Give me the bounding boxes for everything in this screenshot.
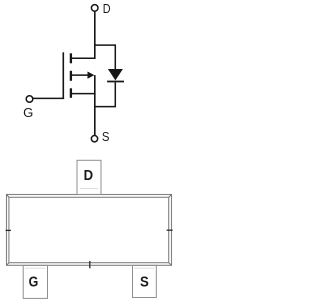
package corner bevel bottom-right (169, 263, 172, 266)
svg-text:D: D (103, 2, 111, 16)
package body outer outline (SOT-23 top view) (7, 195, 172, 266)
diode D1 cathode bar (107, 81, 124, 83)
package left edge tick mark (6, 229, 11, 231)
wire diode bottom branch to source lead (95, 106, 116, 108)
wire body to source vertical (94, 75, 96, 94)
svg-text:S: S (140, 274, 149, 290)
package pad G (gate tab) (23, 265, 47, 298)
terminal D (drain pin circle) (91, 5, 98, 12)
transistor Q1 channel bar drain (70, 53, 72, 63)
svg-text:S: S (102, 130, 110, 144)
transistor Q1 body arrow (P-channel arrowhead) (88, 72, 95, 79)
transistor Q1 channel bar body (70, 71, 72, 81)
package bottom edge tick mark (89, 261, 91, 268)
package pad D (drain tab) (77, 160, 101, 194)
wire diode bottom segment (114, 82, 116, 106)
wire drain stub (72, 57, 96, 59)
package corner bevel bottom-left (7, 263, 10, 266)
package pad S (source tab) (133, 265, 157, 297)
svg-text:G: G (23, 106, 33, 120)
package corner bevel top-right (169, 195, 172, 198)
transistor Q1 gate line (62, 52, 64, 99)
terminal G (gate pin circle) (26, 96, 33, 103)
svg-text:D: D (84, 168, 94, 184)
diode D1 body diode anode triangle (108, 69, 123, 80)
package body inner outline (9, 197, 169, 262)
svg-text:G: G (29, 275, 39, 291)
transistor Q1 channel bar source (70, 88, 72, 98)
terminal S (source pin circle) (91, 136, 97, 142)
package corner bevel top-left (7, 195, 10, 198)
wire source stub (72, 93, 96, 95)
wire diode top segment (114, 44, 116, 70)
wire body stub (72, 74, 89, 76)
package pad D inner edge line (80, 187, 99, 189)
package pad S inner edge line (134, 267, 154, 269)
wire drain lead (D terminal to drain stub) (94, 11, 96, 59)
package right edge tick mark (167, 229, 173, 231)
node drain junction / wire to diode cathode branch (95, 44, 116, 46)
wire gate lead (G terminal to gate line) (33, 97, 65, 99)
wire source lead (to S terminal) (94, 94, 96, 136)
package pad G inner edge line (25, 267, 46, 269)
